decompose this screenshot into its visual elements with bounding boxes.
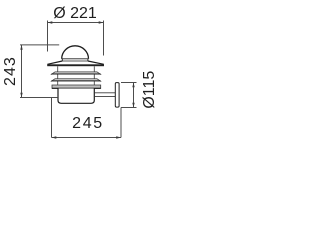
- arrow: Ø221 left: [48, 21, 53, 23]
- louver slat 2: [51, 79, 101, 82]
- louver slat 1: [51, 72, 101, 75]
- wire: 243 bottom extension line: [20, 97, 58, 99]
- dimension Ø221 (top): [48, 21, 104, 56]
- svg-text:243: 243: [2, 56, 19, 86]
- arrow: 243 top: [20, 45, 22, 50]
- lamp brim (top shade): [47, 61, 103, 64]
- lamp brim bottom band: [47, 64, 104, 66]
- bottom cup: [58, 89, 94, 104]
- arrow: 243 bottom: [20, 93, 22, 98]
- louver slat 3 (body ring): [52, 85, 101, 88]
- arrow: 245 left: [52, 136, 57, 138]
- svg-text:Ø115: Ø115: [141, 71, 158, 109]
- arrow: 245 right: [116, 136, 121, 138]
- arrow: Ø115 bottom: [132, 103, 134, 108]
- dimension 245 (bottom): [52, 98, 122, 138]
- arrow: Ø221 right: [99, 21, 104, 23]
- wire: Ø115 top extension line: [121, 82, 137, 84]
- wire: 243 dim line: [21, 45, 23, 98]
- wire: 245 right extension line: [120, 108, 122, 138]
- wire: Ø221 dim line: [48, 22, 104, 24]
- wire: Ø221 left extension line: [47, 21, 49, 52]
- svg-text:245: 245: [72, 115, 104, 132]
- lamp dome: [62, 46, 89, 61]
- arrow: Ø115 top: [132, 83, 134, 88]
- wire: Ø115 bottom extension line: [121, 107, 137, 109]
- wire: 245 left extension line: [51, 98, 53, 138]
- wall plate: [115, 83, 119, 108]
- dimension Ø115 (right): [121, 83, 137, 108]
- wire: 245 dim line: [52, 137, 122, 139]
- svg-text:Ø 221: Ø 221: [53, 5, 97, 22]
- wire: 243 top extension line: [20, 44, 59, 46]
- wall arm: [94, 93, 115, 97]
- wire: Ø115 dim line: [133, 83, 135, 108]
- inner cylinder edges: [58, 66, 95, 88]
- wire: Ø221 right extension line: [103, 21, 105, 56]
- dimension 243 (left): [20, 45, 59, 98]
